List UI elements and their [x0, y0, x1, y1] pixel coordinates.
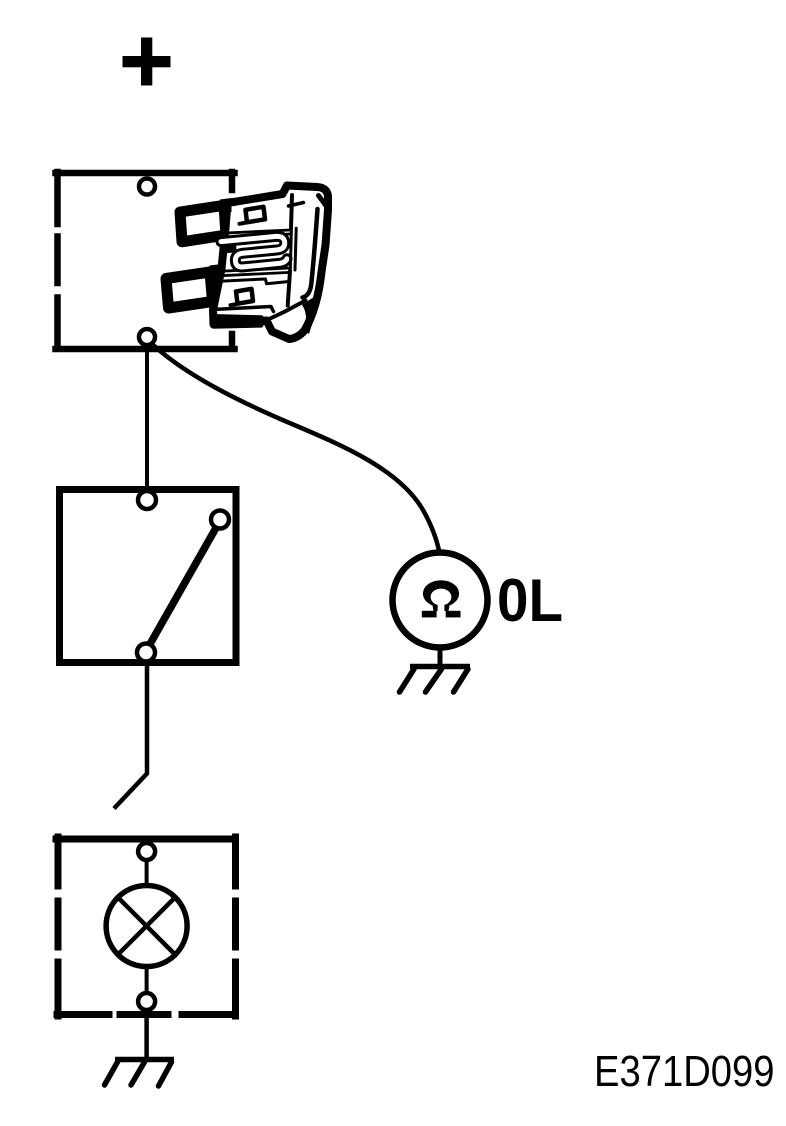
fuse cap seam upper [291, 195, 292, 228]
wire: fuse box left dashed edge [54, 172, 61, 348]
svg-text:E371D099: E371D099 [594, 1048, 775, 1096]
fuse cap corner inner diagonal [319, 196, 328, 208]
switch box S [60, 490, 237, 663]
ohmmeter U (circle with omega) [393, 553, 488, 648]
node: switch bottom terminal [137, 644, 155, 662]
fuse bottom band fill [212, 314, 268, 329]
fuse slot lower tick [231, 304, 238, 305]
fuse box (dashed component box) [56, 172, 235, 349]
wire: ohmmeter to ground [438, 648, 443, 666]
battery plus symbol [123, 38, 171, 86]
fuse cap seam lower [288, 271, 290, 306]
wire: fuse box top edge [56, 170, 235, 177]
node: switch open contact [211, 511, 229, 529]
wire: lamp to bottom terminal [145, 966, 149, 993]
wire: lamp box top edge [56, 836, 235, 843]
fuse element S strip core [221, 236, 287, 267]
node: switch top terminal [138, 491, 156, 509]
wire: terminal to lamp [145, 860, 149, 886]
fuse cap seam window double [290, 228, 296, 270]
wire: vertical from fuse box to switch box [145, 345, 149, 487]
fuse cap top facet line [289, 203, 304, 207]
fuse window bottom divider [219, 268, 291, 276]
wire: lamp box left dashed edge [55, 837, 62, 1016]
fuse slot lower [236, 289, 253, 304]
fuse blade body junction lower fill [210, 264, 223, 284]
wire: below switch box with open break [114, 666, 147, 809]
fuse housing silhouette [213, 186, 328, 340]
fuse F (pictorial blade fuse) [166, 186, 328, 340]
fuse element attachment block [220, 239, 237, 254]
ground symbol below lamp box [105, 1060, 175, 1087]
wire: fuse box bottom edge [56, 346, 235, 353]
node: fuse box bottom terminal [139, 329, 155, 345]
fuse cap inner line with hook [303, 209, 318, 298]
fuse window top divider [223, 230, 291, 237]
wire: curved lead to ohmmeter [151, 343, 440, 553]
node: lamp box bottom terminal [138, 993, 155, 1010]
fuse slot upper [246, 207, 266, 223]
switch blade [150, 527, 217, 644]
wire: lamp box bottom dashed edge [57, 1011, 234, 1018]
wire: bottom terminal to ground [144, 1010, 149, 1060]
fuse front bottom edge line [213, 307, 274, 312]
lamp box (dashed component box) [56, 837, 236, 1016]
fuse blade terminal upper [180, 205, 226, 242]
fuse bottom right corner blob [302, 297, 317, 334]
fuse lower section step line [220, 279, 290, 284]
lamp E (circle with cross) [106, 886, 187, 967]
ground symbol below ohmmeter [400, 667, 471, 693]
node: fuse box top terminal [139, 179, 155, 195]
fuse wedge top line [268, 301, 306, 320]
wire: lamp box right dashed edge [232, 837, 239, 1016]
fuse blade body junction upper fill [220, 198, 232, 213]
fuse blade terminal lower [166, 272, 213, 308]
wire: fuse box right dashed edge [229, 172, 236, 348]
fuse element S strip outline [221, 236, 287, 267]
svg-text:0L: 0L [497, 567, 563, 634]
fuse slot upper tick [240, 223, 247, 224]
node: lamp box top terminal [138, 843, 155, 860]
